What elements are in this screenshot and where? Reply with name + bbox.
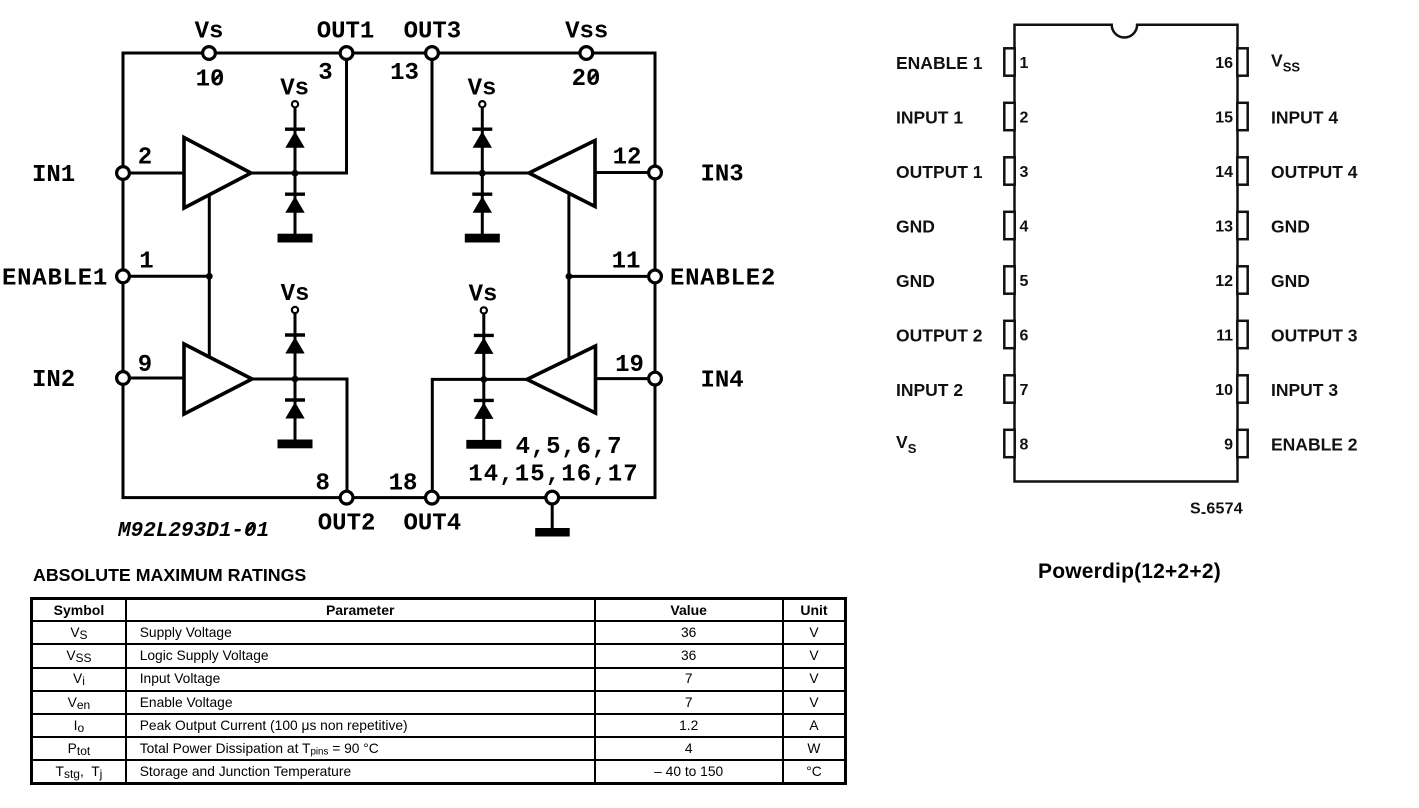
pin 11 lead: [1237, 321, 1247, 348]
svg-text:14: 14: [1215, 164, 1233, 181]
pin 12 lead: [1237, 266, 1247, 293]
svg-text:IN1: IN1: [32, 162, 75, 189]
terminal circle ENABLE1 pin 1: [117, 270, 130, 283]
terminal circle Vss pin 20: [580, 47, 593, 60]
diode DC2 cathode bar (clamp to GND): [285, 398, 305, 401]
svg-text:OUTPUT 2: OUTPUT 2: [896, 326, 983, 346]
junction: enable2 node: [566, 273, 573, 280]
wire: buffer C output to OUT3: [432, 56, 529, 173]
diode DC2 triangle: [285, 402, 304, 419]
wire: diode stack vertical DB: [481, 108, 484, 235]
pin 10 lead: [1237, 375, 1247, 402]
svg-text:12: 12: [613, 144, 642, 171]
wire: buffer B output to OUT2: [252, 379, 347, 495]
svg-text:2: 2: [138, 144, 152, 171]
svg-text:Vs: Vs: [281, 281, 310, 308]
svg-text:9: 9: [1224, 437, 1233, 454]
svg-text:13: 13: [390, 60, 419, 87]
Vs supply node circle for DC: [292, 307, 298, 313]
svg-text:IN2: IN2: [32, 367, 75, 394]
svg-text:11: 11: [612, 248, 641, 275]
svg-text:Vs: Vs: [280, 75, 309, 102]
pin 5 lead: [1004, 266, 1014, 293]
svg-text:11: 11: [1216, 328, 1233, 345]
junction: enable1 node: [206, 273, 213, 280]
pin 6 lead: [1004, 321, 1014, 348]
diode DA1 triangle: [285, 131, 304, 148]
terminal circle IN2 pin 9: [117, 372, 130, 385]
wire: enable1 vertical to buffers A and B: [208, 193, 211, 357]
wire: diode stack vertical DC: [294, 313, 297, 440]
wire: ENABLE1 horizontal: [126, 275, 209, 278]
wire: buffer A output to OUT1: [251, 56, 347, 173]
svg-text:1: 1: [1020, 55, 1029, 72]
svg-text:S-6574: S-6574: [1190, 501, 1243, 522]
diode DB2 cathode bar (clamp to GND): [472, 192, 492, 195]
svg-text:INPUT 2: INPUT 2: [896, 380, 963, 400]
terminal circle OUT1 pin 3: [340, 47, 353, 60]
slash of zero in M92L293D1-01: [246, 524, 255, 534]
svg-text:GND: GND: [896, 271, 935, 291]
svg-text:GND: GND: [1271, 271, 1310, 291]
svg-text:ENABLE2: ENABLE2: [670, 265, 776, 292]
svg-text:INPUT 1: INPUT 1: [896, 108, 963, 128]
terminal circle OUT2 pin 8: [340, 491, 353, 504]
junction: output node dot DA: [292, 170, 299, 177]
svg-text:OUT1: OUT1: [317, 19, 375, 46]
svg-text:Vs: Vs: [195, 19, 224, 46]
table: absolute maximum ratings: [30, 597, 847, 786]
wire: diode stack vertical DD: [482, 314, 485, 441]
svg-text:1: 1: [139, 248, 153, 275]
pin 4 lead: [1004, 212, 1014, 239]
svg-text:ENABLE 1: ENABLE 1: [896, 53, 983, 73]
pin 15 lead: [1237, 103, 1247, 130]
wire: IN3 input to buffer C: [595, 171, 652, 174]
diode DA2 triangle: [285, 196, 304, 213]
wire: IN1 input to buffer A: [126, 172, 184, 175]
op-amp buffer C (IN3/OUT3): [529, 141, 595, 207]
ground symbol under diode stack DC: [278, 440, 313, 449]
svg-text:OUT4: OUT4: [403, 511, 461, 538]
pin 13 lead: [1237, 212, 1247, 239]
op-amp buffer D (IN4/OUT4): [527, 346, 596, 413]
svg-text:4: 4: [1020, 219, 1029, 236]
op-amp buffer B (IN2/OUT2): [184, 344, 252, 414]
wire: IN2 input to buffer B: [126, 377, 184, 380]
svg-text:18: 18: [389, 471, 418, 498]
svg-text:8: 8: [1020, 437, 1029, 454]
diode DD2 triangle: [474, 402, 493, 419]
pin 1 lead: [1004, 48, 1014, 75]
wire: outer box of block diagram: [123, 53, 655, 498]
diode DA2 cathode bar (clamp to GND): [285, 192, 305, 195]
DIP package body outline with index notch: [1015, 25, 1238, 482]
svg-text:IN3: IN3: [701, 162, 744, 189]
pin 7 lead: [1004, 375, 1014, 402]
svg-text:12: 12: [1215, 273, 1233, 290]
slash of zero in 10: [213, 73, 222, 83]
svg-text:10: 10: [196, 67, 225, 94]
terminal circle ENABLE2 pin 11: [649, 270, 662, 283]
svg-text:ENABLE1: ENABLE1: [2, 265, 108, 292]
svg-text:14,15,16,17: 14,15,16,17: [468, 461, 639, 488]
terminal circle OUT4 pin 18: [426, 491, 439, 504]
svg-text:4,5,6,7: 4,5,6,7: [516, 434, 623, 461]
junction: output node dot DB: [479, 170, 486, 177]
svg-text:16: 16: [1215, 55, 1233, 72]
ground symbol under diode stack DD: [466, 440, 501, 449]
svg-text:Vss: Vss: [565, 19, 608, 46]
svg-text:15: 15: [1215, 110, 1233, 127]
slash of zero in 20: [589, 72, 598, 82]
pin 9 lead: [1237, 430, 1247, 457]
ground symbol under diode stack DB: [465, 234, 500, 243]
svg-text:7: 7: [1020, 382, 1029, 399]
terminal circle IN1 pin 2: [117, 167, 130, 180]
terminal circle OUT3 pin 13: [426, 47, 439, 60]
svg-text:IN4: IN4: [701, 368, 744, 395]
wire: ENABLE2 horizontal: [569, 275, 652, 278]
Vs supply node circle for DA: [292, 101, 298, 107]
op-amp buffer A (IN1/OUT1): [184, 138, 251, 209]
svg-text:10: 10: [1215, 382, 1233, 399]
pin 8 lead: [1004, 430, 1014, 457]
pin 14 lead: [1237, 157, 1247, 184]
junction: output node dot DD: [480, 376, 487, 383]
diode DB1 triangle: [473, 131, 492, 148]
diode DB2 triangle: [473, 196, 492, 213]
svg-text:3: 3: [318, 60, 332, 87]
Vs supply node circle for DD: [481, 307, 487, 313]
wire: IN4 input to buffer D: [596, 377, 653, 380]
svg-text:VS: VS: [896, 432, 917, 456]
terminal circle Vs pin 10: [203, 47, 216, 60]
diode DD1 cathode bar (clamp to Vs): [474, 334, 494, 337]
svg-text:GND: GND: [1271, 217, 1310, 237]
terminal circle ground pins 4,5,6,7,14,15,16,17: [546, 491, 559, 504]
svg-text:9: 9: [138, 352, 152, 379]
svg-text:13: 13: [1215, 219, 1233, 236]
svg-text:2: 2: [1020, 110, 1029, 127]
heading: ABSOLUTE MAXIMUM RATINGS: [33, 565, 306, 586]
diode DB1 cathode bar (clamp to Vs): [472, 127, 492, 130]
svg-text:6: 6: [1020, 328, 1029, 345]
ground symbol at bottom terminal: [535, 528, 570, 537]
terminal circle IN4 pin 19: [649, 372, 662, 385]
Vs supply node circle for DB: [479, 101, 485, 107]
caption: Powerdip(12+2+2): [1038, 560, 1221, 584]
svg-text:INPUT 3: INPUT 3: [1271, 380, 1338, 400]
diode DA1 cathode bar (clamp to Vs): [285, 127, 305, 130]
svg-text:19: 19: [615, 352, 644, 379]
diode DD2 cathode bar (clamp to GND): [474, 399, 494, 402]
svg-text:OUT3: OUT3: [404, 19, 462, 46]
svg-text:OUT2: OUT2: [318, 511, 376, 538]
svg-text:OUTPUT 4: OUTPUT 4: [1271, 162, 1358, 182]
svg-text:VSS: VSS: [1271, 51, 1300, 75]
svg-text:OUTPUT 1: OUTPUT 1: [896, 162, 983, 182]
svg-text:5: 5: [1020, 273, 1029, 290]
svg-text:GND: GND: [896, 217, 935, 237]
pin 3 lead: [1004, 157, 1014, 184]
svg-text:Vs: Vs: [468, 75, 497, 102]
svg-text:8: 8: [315, 471, 329, 498]
ground symbol under diode stack DA: [278, 234, 313, 243]
wire: enable2 vertical to buffers C and D: [567, 193, 570, 359]
svg-text:ENABLE 2: ENABLE 2: [1271, 435, 1358, 455]
diode DC1 cathode bar (clamp to Vs): [285, 333, 305, 336]
svg-text:OUTPUT 3: OUTPUT 3: [1271, 326, 1358, 346]
diode DC1 triangle: [285, 337, 304, 354]
pin 16 lead: [1237, 48, 1247, 75]
terminal circle IN3 pin 12: [649, 166, 662, 179]
wire: buffer D output to OUT4: [432, 379, 527, 495]
svg-text:3: 3: [1020, 164, 1029, 181]
diode DD1 triangle: [474, 337, 493, 354]
pin 2 lead: [1004, 103, 1014, 130]
wire: diode stack vertical DA: [294, 108, 297, 235]
svg-text:20: 20: [572, 66, 601, 93]
svg-text:INPUT 4: INPUT 4: [1271, 108, 1338, 128]
wire: ground terminal drop: [551, 503, 554, 529]
svg-text:Vs: Vs: [469, 282, 498, 309]
junction: output node dot DC: [292, 376, 299, 383]
